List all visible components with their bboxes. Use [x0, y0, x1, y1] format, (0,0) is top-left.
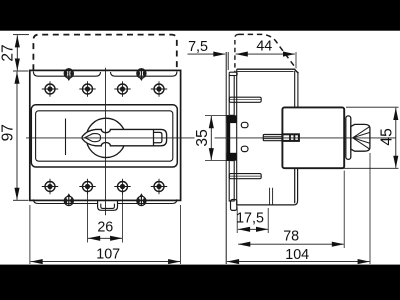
ext line 26 left	[87, 193, 89, 243]
svg-text:44: 44	[256, 39, 272, 55]
DIN clip black bar	[227, 115, 230, 160]
ext line 17,5 left	[236, 207, 238, 233]
DIN clip black bottom block	[227, 153, 237, 161]
ext line 45 top	[346, 106, 399, 108]
handle lever cap divider	[153, 129, 155, 145]
centerline horizontal (side view)	[215, 137, 396, 139]
side body front face upper bar	[295, 71, 298, 107]
label panel outer rounded rect	[31, 105, 177, 167]
ext line 104 right	[369, 153, 371, 264]
dim 78 line	[238, 243, 344, 245]
svg-text:26: 26	[97, 220, 113, 236]
svg-text:97: 97	[0, 124, 16, 141]
bottom center DIN tab	[98, 201, 118, 211]
terminal bar upper inner line	[229, 99, 261, 101]
ext line 44 right	[295, 52, 297, 69]
side body bottom edge with front face lower bar	[237, 168, 298, 205]
ext line 35 bottom	[205, 160, 230, 162]
top flange line right strip	[111, 72, 177, 77]
shaft	[263, 135, 282, 141]
ext line top (27 upper)	[13, 34, 29, 36]
back plate front line	[225, 52, 227, 264]
side body internal step lines	[270, 188, 273, 205]
captive screw top-right	[137, 68, 146, 81]
dim 7,5 line	[188, 53, 226, 55]
terminal screw bottom 4	[151, 179, 167, 195]
dim 45 line	[395, 108, 397, 168]
dim 17,5 line	[238, 228, 268, 230]
side body top edge	[237, 69, 299, 73]
shaft inner lines	[263, 137, 282, 139]
bottom black letterbox bar	[0, 265, 400, 300]
dashed clearance box above front view	[33, 35, 176, 71]
terminal screw bottom 1	[42, 179, 58, 195]
label panel inner rounded rect	[36, 111, 173, 161]
side body top edge inner line	[237, 70, 294, 72]
side body left edge	[236, 69, 238, 205]
dim 35 line	[210, 116, 212, 160]
bottom blade bar	[229, 161, 234, 201]
dashed handle swing line + arc	[239, 34, 297, 68]
terminal bar lower inner line	[229, 175, 261, 177]
ext line 26 right	[122, 193, 124, 243]
svg-text:104: 104	[285, 247, 309, 263]
dim 97 line	[16, 72, 18, 200]
knob flange bar	[346, 116, 351, 159]
svg-text:7,5: 7,5	[188, 39, 208, 55]
ext line 17,5 right	[267, 208, 269, 233]
front view body outline	[30, 70, 181, 200]
captive screw bottom-right	[137, 193, 146, 206]
top blade bar	[229, 76, 234, 116]
side hole lower	[241, 146, 248, 151]
svg-text:35: 35	[194, 129, 211, 147]
ext line 45 bottom	[299, 167, 399, 169]
panel interior divider line	[65, 119, 67, 156]
dashed door plane vertical	[235, 34, 239, 72]
dim 44 line	[236, 53, 295, 55]
captive screw bottom-left	[64, 193, 73, 206]
ext line 107 right	[180, 205, 182, 264]
handle mechanism block	[282, 107, 344, 168]
terminal screw top 1	[42, 81, 58, 97]
bottom flange line right strip	[118, 199, 177, 203]
svg-text:45: 45	[378, 128, 395, 146]
dim 104 line	[227, 261, 370, 263]
svg-text:17,5: 17,5	[236, 211, 264, 227]
centerline vertical (front view)	[105, 68, 107, 215]
knob body	[351, 124, 370, 151]
ext line 107 left	[29, 205, 31, 264]
terminal bar lower (side)	[229, 174, 261, 179]
terminal bar upper (side)	[229, 97, 261, 102]
terminal screw top 4	[151, 81, 167, 97]
terminal screw top 2	[79, 81, 95, 97]
shaft hatch section	[282, 134, 299, 141]
top black letterbox bar	[0, 0, 400, 31]
terminal screw bottom 2	[79, 179, 95, 195]
bottom flange line left strip	[33, 199, 97, 203]
DIN clip black top block	[227, 115, 237, 123]
bottom center DIN tab inner rect	[101, 204, 115, 209]
ext line 78 right	[343, 171, 345, 249]
knob grip lines	[353, 127, 370, 149]
centerline horizontal (front view)	[26, 137, 195, 139]
top blade cap	[229, 72, 237, 75]
dim 26 line	[88, 237, 122, 239]
handle pointer inner outline	[85, 134, 101, 142]
dim 27 line	[16, 35, 18, 70]
terminal screw top 3	[114, 81, 130, 97]
svg-text:107: 107	[96, 247, 120, 263]
shaft hatch dividers	[290, 134, 294, 141]
ext line device bottom left	[13, 199, 29, 201]
DIN clip bottom tab	[231, 200, 237, 211]
ext line 35 top	[205, 114, 230, 116]
dim 107 line	[31, 261, 181, 263]
side hole upper	[241, 122, 248, 127]
back plate rear line (top stub)	[227, 52, 229, 70]
handle lever cap notch	[154, 132, 162, 142]
terminal screw bottom 3	[114, 179, 130, 195]
handle knob circle	[86, 118, 125, 157]
top flange line left strip	[33, 72, 100, 77]
ext line device top left	[13, 70, 29, 72]
handle lever (white filled)	[82, 129, 167, 145]
svg-text:78: 78	[283, 229, 299, 245]
svg-text:27: 27	[0, 44, 16, 61]
captive screw top-left	[64, 68, 73, 81]
